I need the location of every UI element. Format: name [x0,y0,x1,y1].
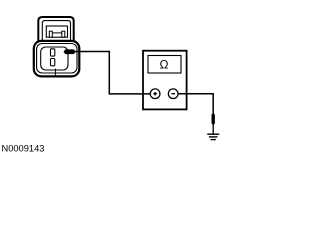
svg-text:N0009143: N0009143 [2,143,45,153]
svg-text:Ω: Ω [160,58,169,72]
